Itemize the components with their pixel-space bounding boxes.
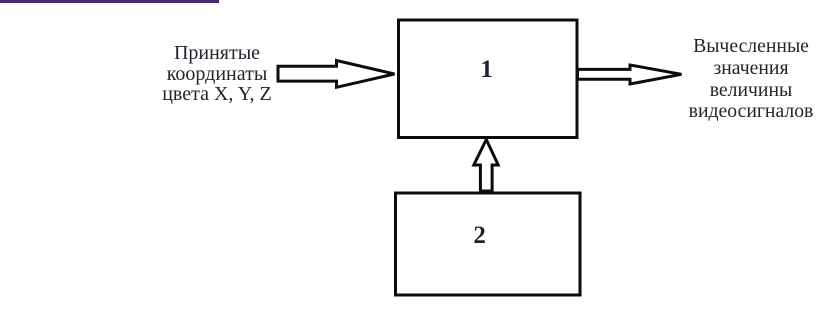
label: "1" in block 1: [437, 56, 537, 84]
label: "2" in block 2: [430, 222, 530, 250]
arrow: up (hollow arrow from block 2 to block 1): [474, 140, 498, 192]
purple rule (top-left underline): [0, 0, 219, 3]
block 2 (box): [396, 193, 581, 295]
label: output text "Вычесленные значения величины видеосигналов": [651, 36, 825, 123]
block 1 (box): [399, 20, 578, 138]
arrow: output (hollow right arrow out of block 1): [578, 65, 682, 84]
label: input text "Принятые координаты цвета X, Y, Z": [117, 43, 317, 105]
arrow: input (hollow right arrow into block 1): [278, 61, 395, 88]
